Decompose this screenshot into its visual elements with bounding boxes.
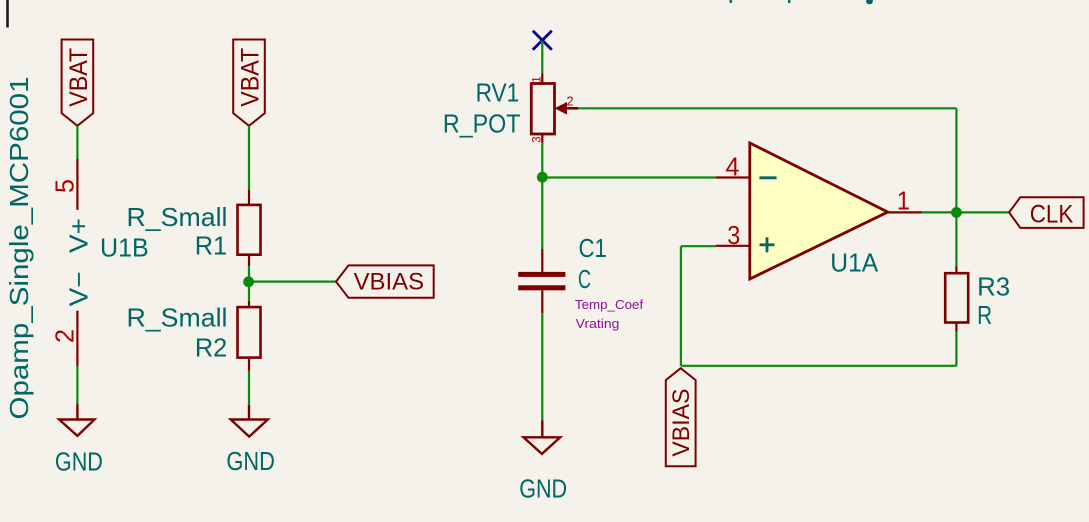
global label VBIAS (bottom) bbox=[666, 368, 696, 466]
svg-text:U1A: U1A bbox=[830, 247, 879, 277]
RV1 wiper arrow pin 2 bbox=[555, 102, 568, 115]
svg-text:R1: R1 bbox=[195, 231, 228, 261]
wire down right column to output node bbox=[955, 108, 957, 212]
svg-text:RV1: RV1 bbox=[476, 77, 520, 107]
op-amp U1A body bbox=[750, 143, 888, 279]
resistor R2 bbox=[248, 301, 250, 307]
wire VBAT to pin5 bbox=[76, 126, 78, 159]
svg-text:C: C bbox=[578, 264, 591, 294]
wire pin2 to GND bbox=[76, 366, 78, 404]
wire junction to VBIAS label bbox=[249, 281, 336, 283]
svg-text:5: 5 bbox=[50, 179, 80, 193]
resistor R3 bbox=[955, 266, 957, 273]
no-connect flag bbox=[533, 31, 552, 50]
svg-text:R_Small: R_Small bbox=[127, 302, 228, 332]
svg-text:VBIAS: VBIAS bbox=[668, 389, 695, 457]
svg-text:VBAT: VBAT bbox=[237, 48, 265, 107]
potentiometer RV1 bbox=[541, 73, 543, 83]
minus pin name bbox=[759, 176, 776, 179]
svg-text:VBIAS: VBIAS bbox=[354, 269, 425, 296]
wire R1 to junction to R2 bbox=[248, 266, 250, 301]
plus pin name bbox=[760, 237, 775, 252]
svg-text:R_Small: R_Small bbox=[127, 202, 228, 232]
global label VBAT (left) bbox=[62, 40, 94, 126]
capacitor C1 bbox=[541, 249, 543, 272]
svg-text:GND: GND bbox=[519, 474, 567, 504]
wire VBAT2 to R1 bbox=[248, 126, 250, 190]
svg-text:V−: V− bbox=[64, 271, 94, 306]
svg-text:GND: GND bbox=[226, 446, 275, 476]
svg-text:Vrating: Vrating bbox=[576, 317, 620, 331]
svg-text:C1: C1 bbox=[579, 233, 607, 263]
svg-text:V+: V+ bbox=[64, 218, 94, 253]
pin 2 (V-) of U1B bbox=[76, 311, 78, 367]
svg-text:2: 2 bbox=[567, 95, 574, 109]
svg-text:Opamp_Single_MCP6001: Opamp_Single_MCP6001 bbox=[4, 77, 34, 420]
svg-text:Temp_Coef: Temp_Coef bbox=[575, 298, 644, 312]
global label VBIAS (right of divider) bbox=[336, 265, 434, 297]
svg-text:4: 4 bbox=[726, 152, 740, 182]
junction VBIAS node bbox=[243, 276, 254, 287]
svg-text:R_POT: R_POT bbox=[443, 108, 521, 138]
svg-text:3: 3 bbox=[727, 220, 740, 250]
opamp pin 4 (inverting) bbox=[716, 176, 750, 178]
ground symbol (second) bbox=[231, 405, 268, 437]
pin 5 (V+) of U1B bbox=[76, 159, 78, 210]
global label CLK bbox=[1009, 197, 1084, 228]
svg-text:VBAT: VBAT bbox=[65, 48, 93, 107]
wire wiper to right column bbox=[578, 107, 956, 109]
ground symbol (left) bbox=[59, 404, 94, 436]
opamp pin 3 (non-inverting) bbox=[716, 245, 750, 247]
svg-text:U1B: U1B bbox=[100, 233, 149, 263]
wire junction to opamp - input bbox=[542, 176, 716, 178]
wire output node down to R3 bbox=[955, 212, 957, 266]
global label VBAT (second) bbox=[233, 40, 265, 126]
junction output node bbox=[951, 207, 962, 218]
svg-text:R3: R3 bbox=[977, 272, 1010, 302]
sheet border edge bbox=[6, 0, 9, 28]
wire R2 to GND bbox=[248, 371, 250, 405]
clipped title text descenders bbox=[730, 0, 873, 4]
svg-text:R2: R2 bbox=[195, 333, 227, 363]
wire RV1 pin3 down to C1 bbox=[541, 143, 543, 249]
wire C1 to GND bbox=[541, 313, 543, 420]
resistor R1 bbox=[248, 190, 250, 205]
wire NC to RV1 pin1 bbox=[541, 41, 543, 74]
svg-text:1: 1 bbox=[897, 186, 910, 216]
svg-text:R: R bbox=[977, 300, 992, 330]
opamp output pin 1 bbox=[888, 211, 923, 213]
svg-text:GND: GND bbox=[55, 447, 103, 477]
ground symbol (center) bbox=[524, 420, 561, 454]
svg-text:2: 2 bbox=[50, 329, 80, 343]
wire R3 bottom to VBIAS rail bbox=[955, 332, 957, 366]
svg-text:1: 1 bbox=[529, 76, 543, 83]
svg-text:3: 3 bbox=[529, 136, 543, 143]
wire output to CLK bbox=[922, 211, 1009, 213]
wire + input from VBIAS net bbox=[681, 245, 716, 247]
svg-text:CLK: CLK bbox=[1030, 200, 1074, 228]
junction at RV1/C1/opamp- bbox=[537, 172, 548, 183]
